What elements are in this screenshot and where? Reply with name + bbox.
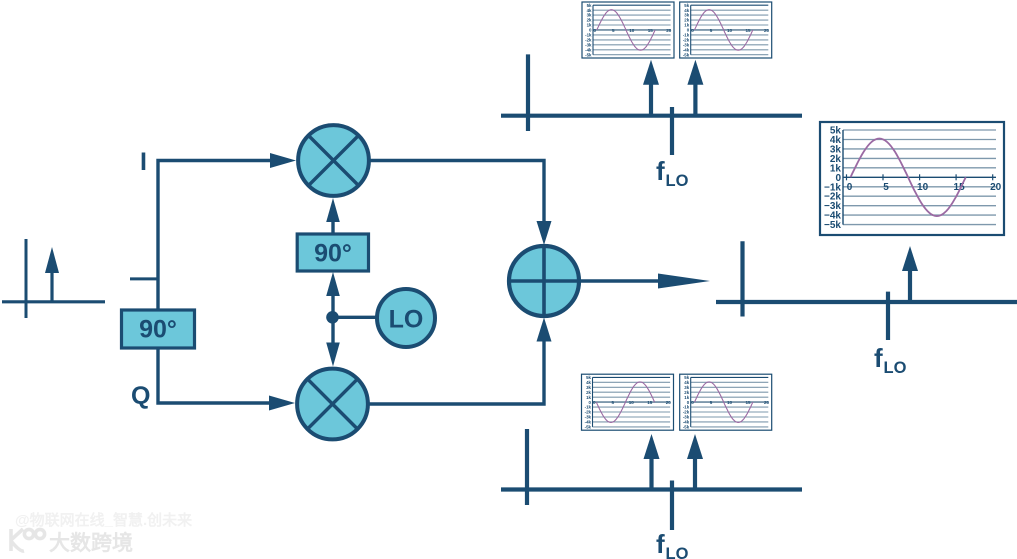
svg-text:f: f [874, 343, 883, 373]
svg-text:Q: Q [131, 382, 150, 410]
svg-text:10: 10 [917, 182, 929, 193]
svg-text:5: 5 [710, 28, 713, 33]
svg-text:I: I [140, 148, 147, 176]
svg-text:5: 5 [612, 400, 615, 405]
svg-text:-5k: -5k [585, 425, 592, 430]
svg-text:LO: LO [666, 172, 689, 190]
svg-text:@物联网在线_智慧.创未来: @物联网在线_智慧.创未来 [15, 511, 193, 529]
svg-text:20: 20 [666, 400, 672, 405]
svg-text:0: 0 [593, 400, 596, 405]
svg-text:0: 0 [691, 400, 694, 405]
svg-text:0: 0 [847, 182, 853, 193]
svg-text:15: 15 [745, 400, 751, 405]
svg-text:15: 15 [648, 28, 654, 33]
svg-text:20: 20 [764, 400, 770, 405]
svg-text:LO: LO [884, 359, 907, 377]
svg-text:5: 5 [883, 182, 889, 193]
svg-text:LO: LO [389, 306, 424, 334]
svg-text:15: 15 [647, 400, 653, 405]
svg-text:-5k: -5k [683, 425, 690, 430]
svg-text:90°: 90° [314, 240, 352, 268]
svg-text:0: 0 [594, 28, 597, 33]
svg-text:10: 10 [629, 28, 635, 33]
svg-text:10: 10 [727, 400, 733, 405]
svg-text:10: 10 [727, 28, 733, 33]
svg-text:f: f [656, 529, 665, 559]
svg-text:20: 20 [764, 28, 770, 33]
svg-text:0: 0 [691, 28, 694, 33]
svg-text:f: f [656, 156, 665, 186]
svg-text:−5k: −5k [824, 220, 841, 231]
svg-text:10: 10 [629, 400, 635, 405]
svg-text:-5k: -5k [683, 52, 690, 57]
svg-text:20: 20 [666, 28, 672, 33]
svg-text:LO: LO [666, 545, 689, 559]
svg-text:20: 20 [990, 182, 1002, 193]
svg-text:5: 5 [612, 28, 615, 33]
svg-text:15: 15 [745, 28, 751, 33]
svg-text:90°: 90° [139, 316, 177, 344]
svg-text:5: 5 [710, 400, 713, 405]
svg-text:-5k: -5k [585, 52, 592, 57]
svg-text:大数跨境: 大数跨境 [49, 531, 133, 555]
